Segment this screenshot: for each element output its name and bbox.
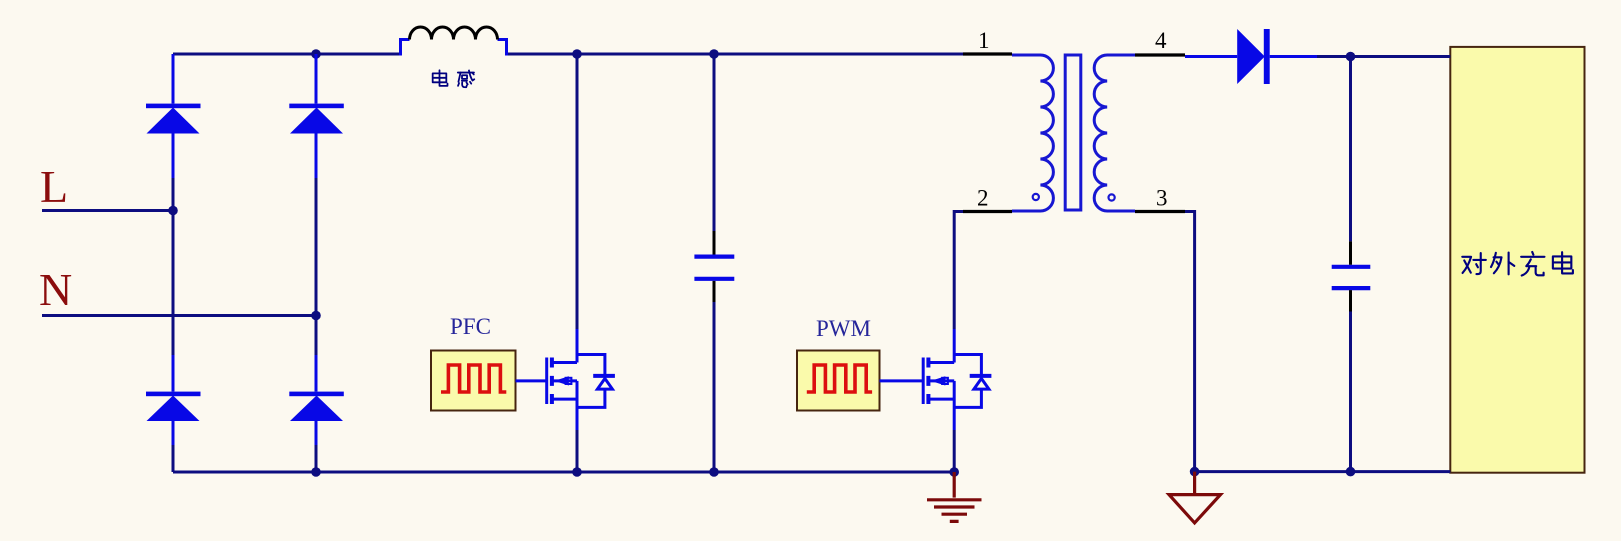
svg-text:4: 4 <box>1155 28 1167 53</box>
svg-text:N: N <box>39 264 72 315</box>
svg-text:L: L <box>40 161 68 212</box>
svg-text:2: 2 <box>977 186 989 211</box>
svg-text:1: 1 <box>978 28 990 53</box>
svg-text:PFC: PFC <box>450 314 491 339</box>
svg-text:PWM: PWM <box>816 316 871 341</box>
svg-text:3: 3 <box>1156 186 1168 211</box>
